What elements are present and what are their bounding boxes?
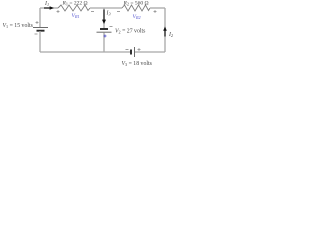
svg-text:I1: I1 [44,1,49,7]
svg-text:VR2: VR2 [133,14,141,20]
polarity + right of V3 [138,48,141,51]
wire middle branch upper [103,8,105,29]
current arrow I1 [44,6,54,10]
wire right branch [164,8,166,52]
wire left branch lower [39,31,41,52]
polarity + right of R2 [154,10,157,13]
svg-text:V1 = 15 volts: V1 = 15 volts [3,23,34,29]
wire middle branch lower [103,33,105,53]
svg-text:R1 = 222 Ω: R1 = 222 Ω [62,1,88,7]
wire bottom rail left segment [40,51,131,53]
svg-text:I2: I2 [168,32,173,38]
svg-text:VR1: VR1 [72,13,80,19]
polarity - top of V2 [110,26,113,28]
current arrow I2 (right, up) [163,27,167,37]
polarity + bottom of V2 (blue) [104,35,107,38]
current arrow I3 (middle, down) [102,10,106,25]
polarity - left of V3 [126,49,129,51]
polarity - right of R1 [91,11,94,13]
polarity + left of R1 [57,10,60,13]
svg-text:R2 = 560 Ω: R2 = 560 Ω [123,1,149,7]
resistor R1 [58,5,90,11]
wire top rail right segment [150,7,165,9]
battery V1 [33,28,48,31]
svg-text:V3 = 18 volts: V3 = 18 volts [122,61,153,67]
battery V2 [97,29,112,32]
svg-text:I3: I3 [106,11,111,17]
wire left branch upper [39,8,41,28]
polarity + top of V1 [36,21,39,24]
battery V3 [131,47,135,57]
polarity - bottom of V1 [35,33,38,35]
wire bottom rail right segment [135,51,165,53]
svg-text:V2 = 27 volts: V2 = 27 volts [115,28,146,34]
resistor R2 [122,5,150,11]
polarity - left of R2 [117,11,120,13]
wire top rail middle segment [90,7,122,9]
wire top rail left segment [40,7,58,9]
